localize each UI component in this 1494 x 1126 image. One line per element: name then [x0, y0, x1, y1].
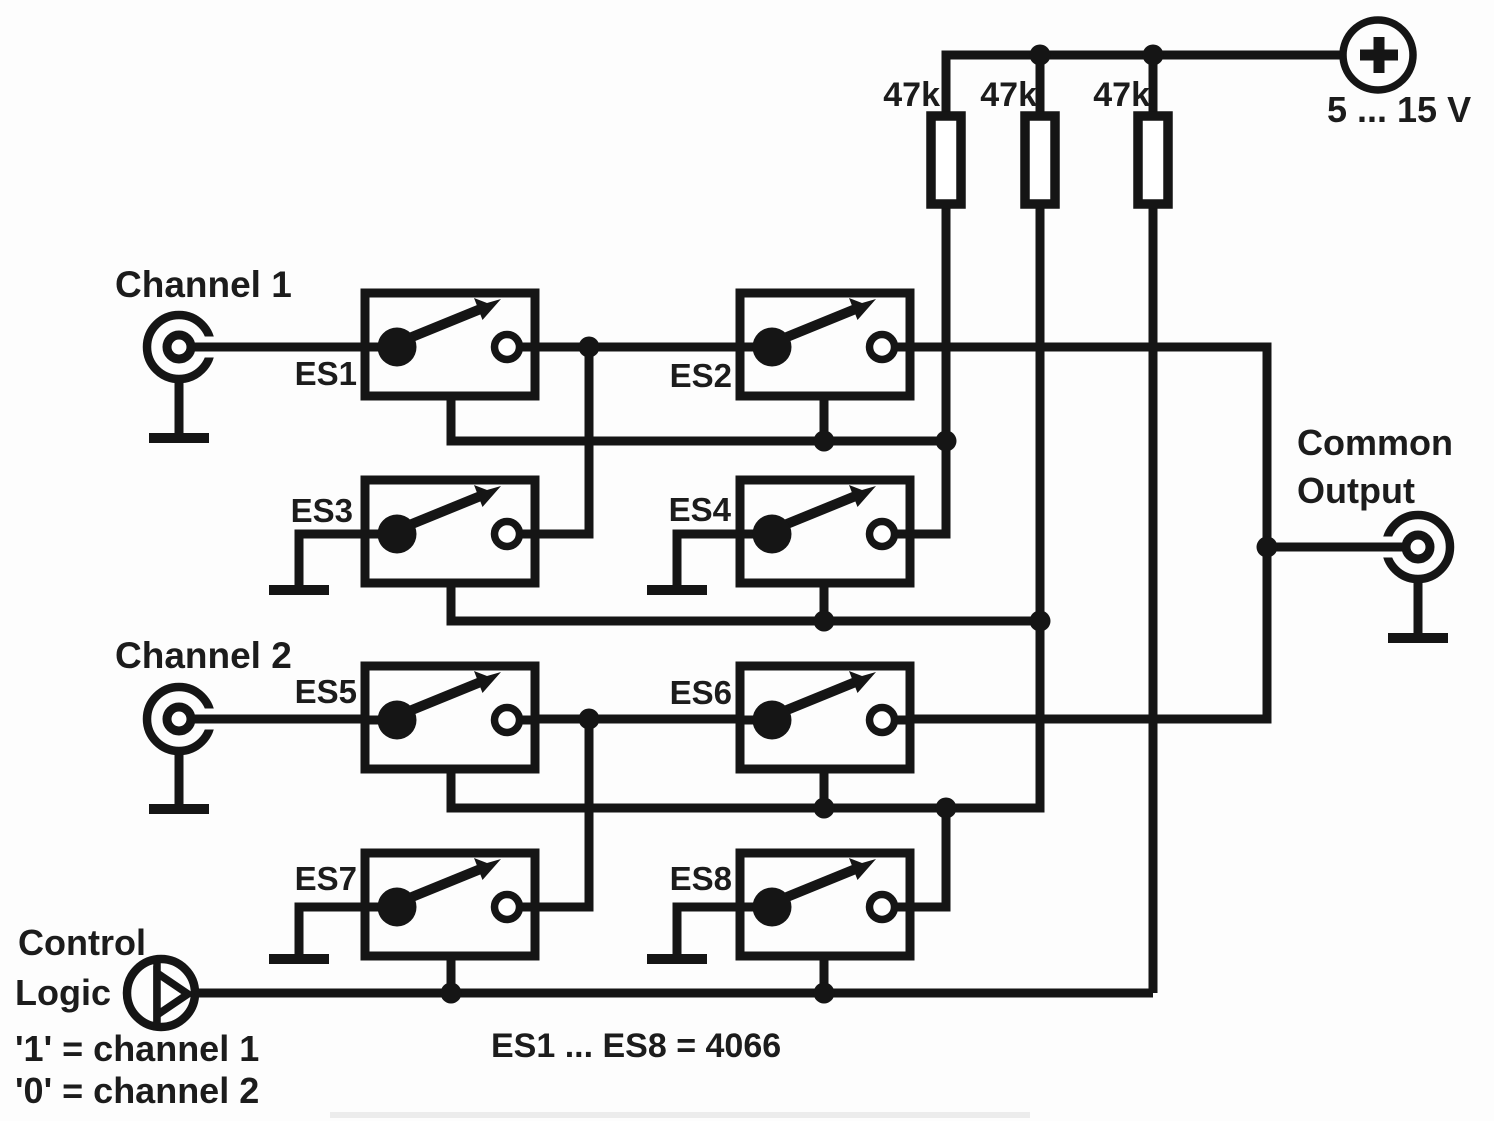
svg-text:Output: Output	[1297, 470, 1415, 511]
svg-text:Logic: Logic	[15, 972, 111, 1013]
svg-text:ES8: ES8	[670, 860, 732, 897]
svg-text:47k: 47k	[1093, 76, 1150, 114]
svg-text:Common: Common	[1297, 422, 1453, 463]
svg-text:ES4: ES4	[669, 491, 732, 528]
svg-text:ES2: ES2	[670, 357, 732, 394]
svg-text:ES7: ES7	[295, 860, 357, 897]
svg-text:ES6: ES6	[670, 674, 732, 711]
svg-text:ES3: ES3	[291, 492, 353, 529]
svg-text:47k: 47k	[883, 76, 940, 114]
svg-text:ES1 ... ES8 = 4066: ES1 ... ES8 = 4066	[491, 1027, 781, 1065]
svg-text:ES1: ES1	[295, 355, 357, 392]
svg-text:Control: Control	[18, 922, 146, 963]
svg-text:ES5: ES5	[295, 673, 357, 710]
svg-text:'0' = channel 2: '0' = channel 2	[15, 1070, 259, 1111]
svg-text:Channel 1: Channel 1	[115, 264, 292, 305]
svg-text:5 ... 15 V: 5 ... 15 V	[1327, 89, 1471, 130]
svg-text:'1' = channel 1: '1' = channel 1	[15, 1028, 259, 1069]
svg-text:47k: 47k	[980, 76, 1037, 114]
svg-text:Channel 2: Channel 2	[115, 635, 292, 676]
